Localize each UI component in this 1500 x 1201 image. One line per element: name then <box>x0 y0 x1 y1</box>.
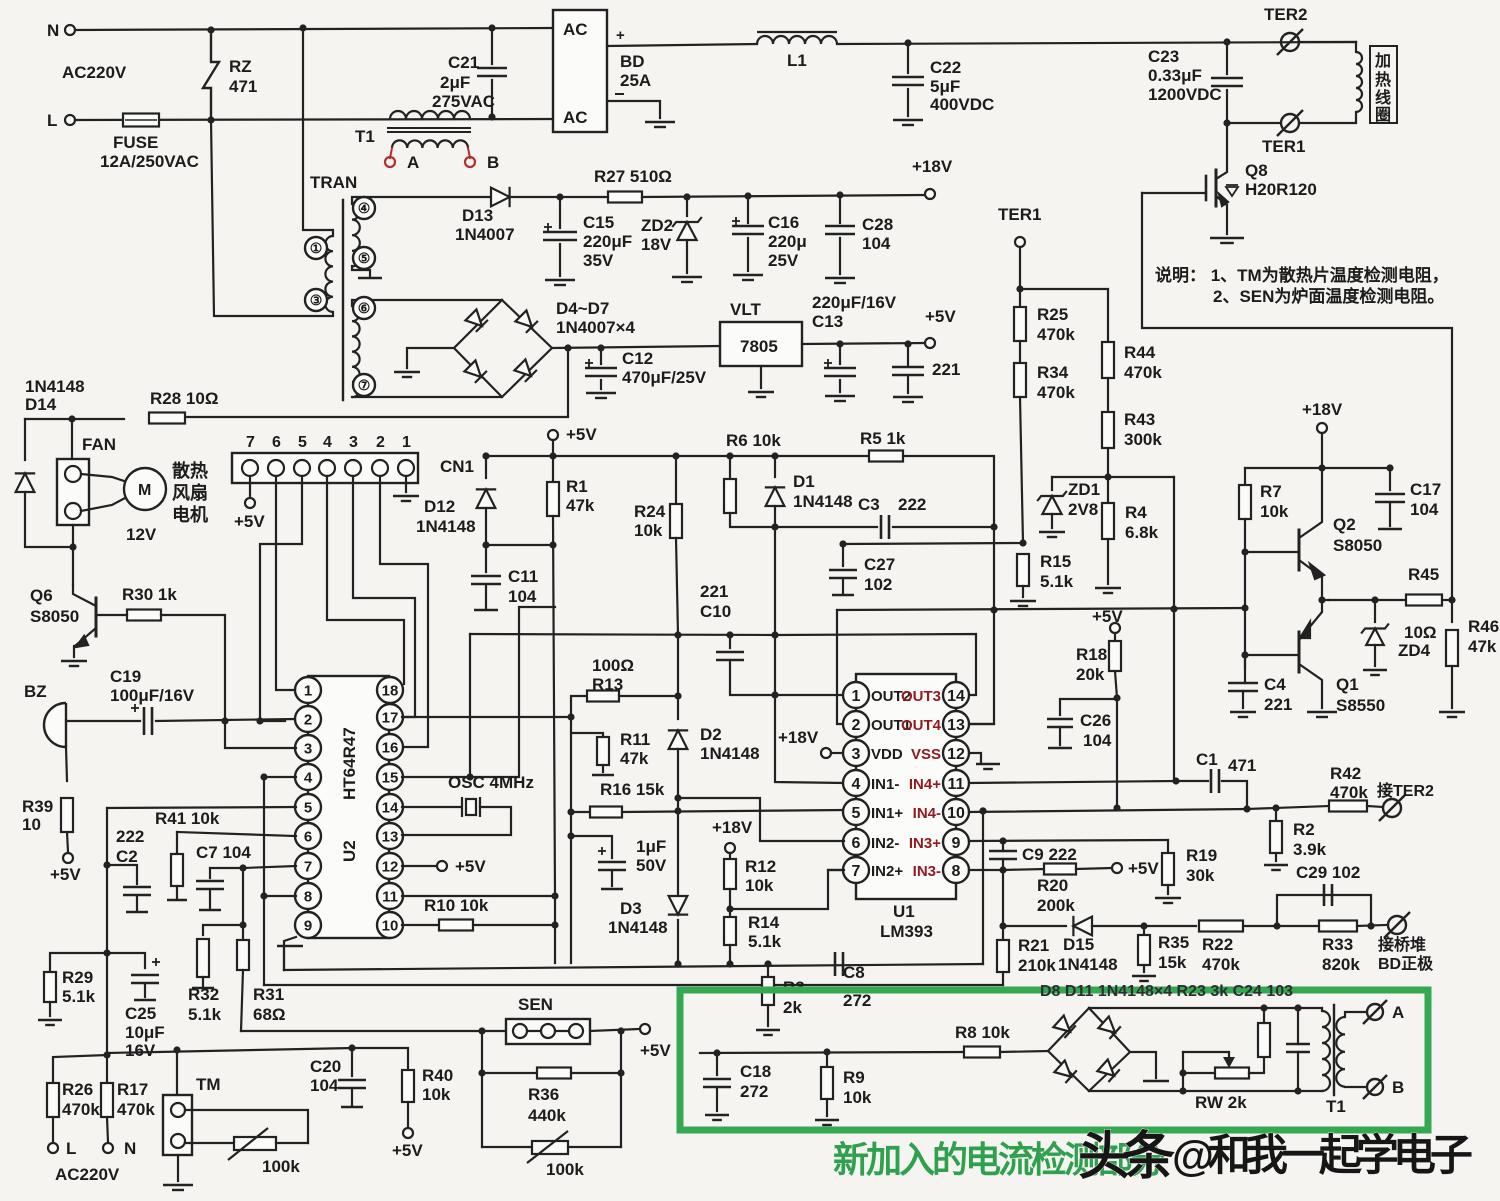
terminal +18V u1 <box>821 748 831 758</box>
svg-text:C3: C3 <box>858 495 880 514</box>
junction C21 top <box>488 24 495 31</box>
svg-text:10: 10 <box>22 815 41 834</box>
wire A lead red <box>390 148 392 158</box>
svg-text:R39: R39 <box>22 797 53 816</box>
svg-text:5: 5 <box>298 434 307 451</box>
transformer T1 sense left <box>1322 1011 1330 1091</box>
wire C19 to U2 <box>156 719 296 721</box>
svg-text:R45: R45 <box>1408 565 1439 584</box>
svg-text:+5V: +5V <box>566 425 597 444</box>
wire R13 right <box>619 695 678 697</box>
wire C2 bottom <box>136 897 138 910</box>
transformer TRAN primary winding <box>325 236 333 312</box>
wire ct B lead <box>1345 1086 1366 1088</box>
svg-text:300k: 300k <box>1124 430 1162 449</box>
ground R46 <box>1439 712 1465 717</box>
junction col571 R16 <box>567 808 574 815</box>
wire C7 lead <box>209 868 211 878</box>
wire 1uF link <box>571 836 612 858</box>
svg-text:T1: T1 <box>1326 1097 1346 1116</box>
wire C21 bottom lead <box>491 80 493 117</box>
wire C21 vertical <box>491 28 493 64</box>
wire SEN link 12 <box>527 1030 541 1032</box>
junction C1 left <box>1172 777 1179 784</box>
svg-text:D8 D11 1N4148×4 R23: D8 D11 1N4148×4 R23 3k C24 103 <box>1040 983 1293 1000</box>
capacitor 221 at 5V <box>892 367 924 375</box>
svg-text:R11: R11 <box>620 730 650 749</box>
buzzer BZ <box>44 703 66 747</box>
bridge BD box <box>553 10 607 132</box>
svg-text:AC220V: AC220V <box>62 63 127 82</box>
junction R2 top <box>1272 804 1279 811</box>
wire R14 bottom <box>729 945 731 964</box>
wire rail 964 <box>284 964 983 970</box>
svg-text:U1: U1 <box>893 902 915 921</box>
svg-text:3.9k: 3.9k <box>1293 840 1327 859</box>
IC U1 pin 13 <box>943 711 969 737</box>
ground C15 <box>545 280 575 285</box>
svg-text:+5V: +5V <box>640 1041 671 1060</box>
svg-text:CN1: CN1 <box>440 457 474 476</box>
junction C16 <box>744 192 751 199</box>
wire C1 row <box>1176 780 1208 782</box>
svg-text:25V: 25V <box>768 251 799 270</box>
wire C4 bottom <box>1242 691 1244 708</box>
svg-text:M: M <box>138 482 151 499</box>
wire 5V terminal stub <box>552 441 554 456</box>
IC U1 pin 7 <box>843 857 869 883</box>
motor M circle <box>124 468 166 510</box>
junction pin4 riser <box>260 773 267 780</box>
IC U2 pin 10 <box>377 912 403 938</box>
capacitor C22 <box>892 77 924 85</box>
wire R26 bottom <box>52 1117 54 1142</box>
CN1 pin 4 circle <box>319 460 335 476</box>
svg-text:D2: D2 <box>700 725 722 744</box>
wire R8 to bridge <box>1000 1051 1048 1052</box>
wire R34 to R15 <box>1020 397 1023 543</box>
wire Q8 collector <box>1216 123 1227 179</box>
resistor R20 <box>1044 864 1076 875</box>
svg-text:IN1-: IN1- <box>871 776 899 793</box>
svg-text:C29 102: C29 102 <box>1296 863 1360 882</box>
junction R14 rail <box>726 960 733 967</box>
svg-text:222: 222 <box>116 827 144 846</box>
node 1 primary <box>305 237 327 259</box>
svg-text:+18V: +18V <box>912 157 953 176</box>
ground R4 <box>1095 588 1121 593</box>
heating coil winding <box>1356 52 1362 112</box>
ground 1uF <box>601 888 623 891</box>
IC U2 pin 17 <box>377 704 403 730</box>
FAN pin top <box>65 466 81 482</box>
svg-text:C4: C4 <box>1264 675 1286 694</box>
svg-text:1N4148: 1N4148 <box>793 492 853 511</box>
wire D1 lower <box>774 506 776 527</box>
svg-text:电机: 电机 <box>172 504 208 525</box>
wire D12-R1 link <box>486 544 553 546</box>
svg-text:R16 15k: R16 15k <box>600 780 665 799</box>
svg-text:10k: 10k <box>634 521 663 540</box>
CN1 pin 7 circle <box>242 460 258 476</box>
wire C11 bottom <box>485 586 487 608</box>
wire C18 lead <box>716 1053 718 1075</box>
svg-text:+5V: +5V <box>50 865 81 884</box>
wire R44 branch <box>1020 289 1108 341</box>
wire bridge left to ground <box>407 348 454 368</box>
wire R28 feed <box>184 348 568 417</box>
junction pin8 riser <box>260 892 267 899</box>
svg-text:11: 11 <box>382 888 398 905</box>
wire C1 right <box>1222 781 1247 809</box>
CN1 pin 1 circle <box>398 460 414 476</box>
wire TRAN sec67 bottom <box>352 396 502 398</box>
wire driver out <box>1322 599 1329 601</box>
IC U2 pin 1 <box>295 677 321 703</box>
wire BZ to R39 <box>66 747 67 781</box>
svg-text:OUT3: OUT3 <box>901 688 941 705</box>
wire R36 left leg <box>481 1031 483 1147</box>
wire RW right <box>1249 1058 1264 1073</box>
junction rail964 riser top <box>979 807 986 814</box>
svg-text:20k: 20k <box>1076 665 1105 684</box>
wire C2 lead <box>107 865 137 884</box>
capacitor C24 <box>1286 1044 1310 1052</box>
svg-text:35V: 35V <box>583 251 614 270</box>
svg-text:10k: 10k <box>843 1088 872 1107</box>
svg-text:440k: 440k <box>528 1106 566 1125</box>
svg-text:104: 104 <box>862 234 891 253</box>
terminal A red <box>385 157 395 167</box>
junction R1 bottom <box>549 541 556 548</box>
junction ZD1 rail <box>1104 473 1111 480</box>
IC U1 pin 10 <box>943 799 969 825</box>
svg-text:471: 471 <box>229 77 257 96</box>
terminal TER2 <box>1277 29 1303 55</box>
svg-text:R32: R32 <box>188 985 219 1004</box>
IC U1 pin 12 <box>943 740 969 766</box>
svg-text:5: 5 <box>304 799 312 816</box>
resistor R23 <box>1258 1023 1270 1057</box>
wire D3 col <box>677 812 679 894</box>
resistor R26 <box>47 1083 59 1117</box>
svg-text:N: N <box>47 21 59 40</box>
wire D15 row 2 <box>1092 925 1196 927</box>
svg-text:接TER2: 接TER2 <box>1377 781 1434 800</box>
ground R2 <box>1264 865 1288 870</box>
svg-text:1N4007: 1N4007 <box>455 225 515 244</box>
wire C28 lead <box>839 195 841 223</box>
terminal +5V rail <box>548 430 558 440</box>
wire C25 link <box>107 953 145 968</box>
wire T1 primary riser <box>303 28 333 236</box>
wire D12 lower <box>485 508 487 545</box>
svg-text:104: 104 <box>1083 731 1112 750</box>
svg-text:S8050: S8050 <box>30 607 79 626</box>
SEN pin 3 <box>569 1024 583 1038</box>
svg-text:R25: R25 <box>1037 305 1068 324</box>
ground C17 <box>1378 528 1402 531</box>
wire D13 to R27 <box>510 196 609 198</box>
junction R12 R14 <box>726 905 733 912</box>
svg-text:13: 13 <box>382 828 399 845</box>
wire rail610 to U1 pin2 <box>837 610 843 724</box>
svg-text:RZ: RZ <box>229 57 252 76</box>
wire TM bottom gnd <box>177 1155 179 1181</box>
capacitor C25 plus <box>152 958 160 966</box>
svg-text:210k: 210k <box>1018 956 1056 975</box>
wire C20 bottom <box>351 1090 353 1105</box>
wire R46 bottom <box>1451 666 1453 708</box>
wire C9 col top <box>1002 841 1004 851</box>
wire Q6 emitter to ground <box>73 646 75 657</box>
transistor Q6 base bar <box>95 598 98 636</box>
wire U2 pin7 lead <box>243 866 296 868</box>
junction R35 top <box>1140 922 1147 929</box>
wire TM therm left <box>185 1142 234 1144</box>
ground ZD2 <box>672 277 702 282</box>
resistor R10 <box>439 920 473 931</box>
svg-text:+5V: +5V <box>392 1141 423 1160</box>
svg-text:N: N <box>124 1139 136 1158</box>
svg-text:C10: C10 <box>700 602 731 621</box>
svg-text:C23: C23 <box>1148 47 1179 66</box>
wire C13 bottom <box>839 380 841 392</box>
resistor R2 <box>1270 821 1282 853</box>
svg-text:10: 10 <box>382 917 399 934</box>
resistor R31 <box>237 940 249 970</box>
wire CN1 p3 run <box>353 476 415 717</box>
svg-text:IN1+: IN1+ <box>871 805 903 822</box>
svg-text:VDD: VDD <box>871 746 903 763</box>
junction col107 bottom <box>103 1051 110 1058</box>
crystal OSC <box>462 797 480 817</box>
svg-text:+: + <box>616 27 625 44</box>
wire comp rail 544 <box>843 543 1023 544</box>
junction rail610 end <box>1241 604 1248 611</box>
ground C28 <box>825 278 855 283</box>
svg-text:5: 5 <box>852 805 861 822</box>
svg-text:50V: 50V <box>636 856 667 875</box>
svg-text:5.1k: 5.1k <box>748 932 782 951</box>
wire SEN link 23 <box>555 1030 569 1032</box>
svg-text:9: 9 <box>952 835 961 852</box>
svg-text:加: 加 <box>1374 52 1391 70</box>
transistor Q8 body bar <box>1215 170 1218 206</box>
wire R5 right <box>903 456 994 724</box>
svg-text:C17: C17 <box>1410 480 1441 499</box>
wire R6 upper <box>729 456 731 479</box>
wire plus rail to TER2 <box>837 42 1356 44</box>
wire C17 lead <box>1389 468 1391 490</box>
wire R27 to 18V <box>642 195 925 197</box>
resistor R29 <box>44 972 56 1002</box>
junction drop pin15 <box>466 773 473 780</box>
svg-text:C25: C25 <box>125 1004 156 1023</box>
terminal TER2 jack <box>1379 795 1405 821</box>
diode D10 <box>1054 1060 1077 1083</box>
IC U2 body <box>308 676 389 938</box>
capacitor C20 <box>338 1080 366 1088</box>
svg-text:3: 3 <box>852 746 861 763</box>
junction R36 left <box>478 1069 485 1076</box>
junction R28 riser <box>564 344 571 351</box>
svg-text:102: 102 <box>864 575 892 594</box>
svg-text:A: A <box>407 153 419 172</box>
svg-text:L: L <box>66 1139 76 1158</box>
wire u1 pin9 lead <box>969 840 1168 841</box>
diode D12 <box>476 489 496 508</box>
wire R13 left <box>571 696 586 717</box>
ground C18 <box>705 1115 729 1120</box>
wire u1 pin10 lead <box>969 809 1247 812</box>
FAN pin bottom <box>65 503 81 519</box>
wire C26 bottom <box>1059 727 1061 745</box>
wire R11 link <box>571 733 603 737</box>
terminal N <box>65 25 75 35</box>
junction C12 <box>597 344 604 351</box>
wire R46 drop <box>1451 600 1453 622</box>
capacitor C9 <box>989 851 1017 859</box>
potentiometer RW wiper <box>1223 1057 1235 1068</box>
terminal L <box>65 115 75 125</box>
junction pin10 rail 983 <box>979 807 986 814</box>
svg-text:47k: 47k <box>566 496 595 515</box>
wire R12 R14 link <box>729 889 731 918</box>
svg-text:AC: AC <box>563 20 588 39</box>
wire U2 pin17 lead <box>402 716 571 718</box>
IC U1 body <box>856 674 956 899</box>
wire R36 row <box>482 1072 538 1074</box>
junction R9 <box>823 1048 830 1055</box>
svg-text:R14: R14 <box>748 913 780 932</box>
IC U2 pin 4 <box>295 764 321 790</box>
svg-text:ZD1: ZD1 <box>1068 480 1100 499</box>
resistor R21 <box>997 940 1009 972</box>
wire CN1 pin7 stub <box>249 476 251 497</box>
wire R33 wire <box>1277 925 1319 927</box>
resistor R8 <box>964 1047 1000 1058</box>
svg-text:OSC 4MHz: OSC 4MHz <box>448 773 534 792</box>
resistor R33 <box>1319 921 1357 932</box>
svg-text:25A: 25A <box>620 71 651 90</box>
resistor R13 <box>587 691 619 702</box>
junction D1 rail635 <box>771 631 778 638</box>
IC U1 pin 4 <box>843 770 869 796</box>
svg-text:8: 8 <box>304 888 312 905</box>
wire D15 row <box>1003 925 1066 927</box>
wire R40 feed <box>352 1048 408 1068</box>
resistor R3 <box>762 977 774 1005</box>
ground R9 <box>815 1120 839 1125</box>
ground R19 <box>1155 898 1181 903</box>
svg-text:⑤: ⑤ <box>358 250 371 266</box>
svg-text:1N4007×4: 1N4007×4 <box>556 318 635 337</box>
svg-text:C18: C18 <box>740 1062 771 1081</box>
wire Q8 gate drive run <box>1142 193 1452 600</box>
IC U2 pin 11 <box>377 883 403 909</box>
svg-text:1N4148: 1N4148 <box>1058 955 1118 974</box>
wire R3 bottom <box>767 1005 769 1026</box>
svg-text:12: 12 <box>947 746 965 763</box>
svg-text:TER1: TER1 <box>998 205 1041 224</box>
wire C11 lead <box>485 545 487 572</box>
capacitor C17 <box>1375 494 1405 502</box>
svg-text:470k: 470k <box>62 1100 100 1119</box>
wire drv 18V drop <box>1321 433 1323 468</box>
ground ZD4 <box>1363 670 1387 675</box>
IC U1 pin 6 <box>843 829 869 855</box>
wire R45 right <box>1442 599 1452 601</box>
junction C24 bottom <box>1294 1087 1301 1094</box>
wire U2 pin15 loop <box>402 607 555 777</box>
svg-text:R18: R18 <box>1076 645 1107 664</box>
capacitor C2 <box>123 887 151 895</box>
wire TER1 to C23 <box>1227 122 1281 124</box>
svg-text:R36: R36 <box>528 1085 559 1104</box>
junction C10 top <box>726 631 733 638</box>
svg-text:R34: R34 <box>1037 363 1069 382</box>
resistor R36 <box>537 1068 571 1079</box>
svg-text:R35: R35 <box>1158 933 1189 952</box>
CN1 pin 6 circle <box>268 460 284 476</box>
wire R19 drop <box>1167 840 1169 852</box>
svg-text:275VAC: 275VAC <box>432 92 495 111</box>
transformer TRAN winding 6-7 <box>352 306 360 397</box>
wire R4 drop <box>1107 477 1109 503</box>
svg-text:A: A <box>1392 1003 1404 1022</box>
svg-text:Q2: Q2 <box>1333 515 1356 534</box>
junction D12 top <box>482 452 489 459</box>
wire C7 to pin7 junction <box>210 867 243 869</box>
ground bridge left <box>394 372 420 377</box>
junction pin11 tap <box>551 892 558 899</box>
svg-text:H20R120: H20R120 <box>1245 180 1317 199</box>
terminal +5V bz <box>63 853 73 863</box>
svg-text:15: 15 <box>382 769 399 786</box>
diode D7 <box>514 359 537 382</box>
SEN pin 1 <box>513 1024 527 1038</box>
wire D14 to R28 <box>25 418 124 420</box>
svg-text:L: L <box>47 111 57 130</box>
svg-text:6: 6 <box>272 434 281 451</box>
svg-text:Q8: Q8 <box>1245 161 1268 180</box>
wire ZD4 drop <box>1374 600 1376 622</box>
resistor R34 <box>1014 363 1026 397</box>
terminal BD plus <box>1384 912 1410 938</box>
label minus <box>615 93 624 95</box>
transformer T1 sense core <box>1333 1005 1335 1095</box>
wire CN1 p6 to U2 pin1 <box>276 476 296 690</box>
svg-text:470k: 470k <box>117 1100 155 1119</box>
junction D1 top <box>771 452 778 459</box>
CN1 pin 3 circle <box>345 460 361 476</box>
svg-text:LM393: LM393 <box>880 922 933 941</box>
junction R6 top <box>726 452 733 459</box>
svg-text:7: 7 <box>852 863 861 880</box>
wire motor lead 2 <box>81 498 125 511</box>
inductor L1 <box>757 32 837 44</box>
potentiometer RW body <box>1215 1068 1249 1079</box>
CN1 pin 2 circle <box>372 460 388 476</box>
svg-text:热: 热 <box>1375 70 1391 89</box>
resistor R7 <box>1239 485 1251 519</box>
wire TER2 to coil <box>1299 41 1356 43</box>
wire D14 bottom <box>25 492 73 547</box>
ground TRAN sec45 <box>358 277 382 280</box>
junction TM top <box>173 1046 180 1053</box>
wire C3 left <box>775 526 877 528</box>
